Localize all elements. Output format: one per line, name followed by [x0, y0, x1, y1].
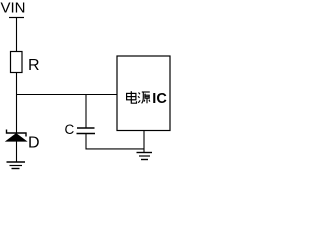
wire capacitor to IC ground net: [86, 148, 145, 150]
capacitor C bottom plate: [77, 133, 96, 135]
zener diode D cathode bar: [7, 130, 27, 137]
wire capacitor bottom down: [85, 134, 87, 150]
power IC U1 box: [117, 56, 170, 131]
ground symbol left: [7, 162, 26, 169]
wire diode anode to ground: [16, 141, 18, 162]
svg-text:C: C: [65, 122, 75, 137]
power IC label CJK dian: [127, 91, 137, 103]
svg-text:IC: IC: [152, 91, 167, 107]
wire IC bottom to ground: [143, 131, 145, 153]
terminal tick VIN: [9, 17, 24, 19]
power IC label CJK yuan: [138, 92, 150, 103]
capacitor C top plate: [77, 127, 95, 129]
resistor R: [11, 52, 23, 73]
wire resistor bottom to diode cathode (through node at bus): [16, 73, 18, 134]
wire VIN to resistor R top: [16, 18, 18, 53]
wire bus tap down to capacitor C: [85, 95, 87, 129]
zener diode D anode triangle: [6, 134, 26, 142]
svg-text:R: R: [28, 57, 40, 74]
wire horizontal bus from node to power IC input: [16, 94, 117, 96]
ground symbol right: [137, 153, 153, 160]
svg-text:VIN: VIN: [1, 0, 26, 17]
svg-text:D: D: [28, 134, 40, 151]
